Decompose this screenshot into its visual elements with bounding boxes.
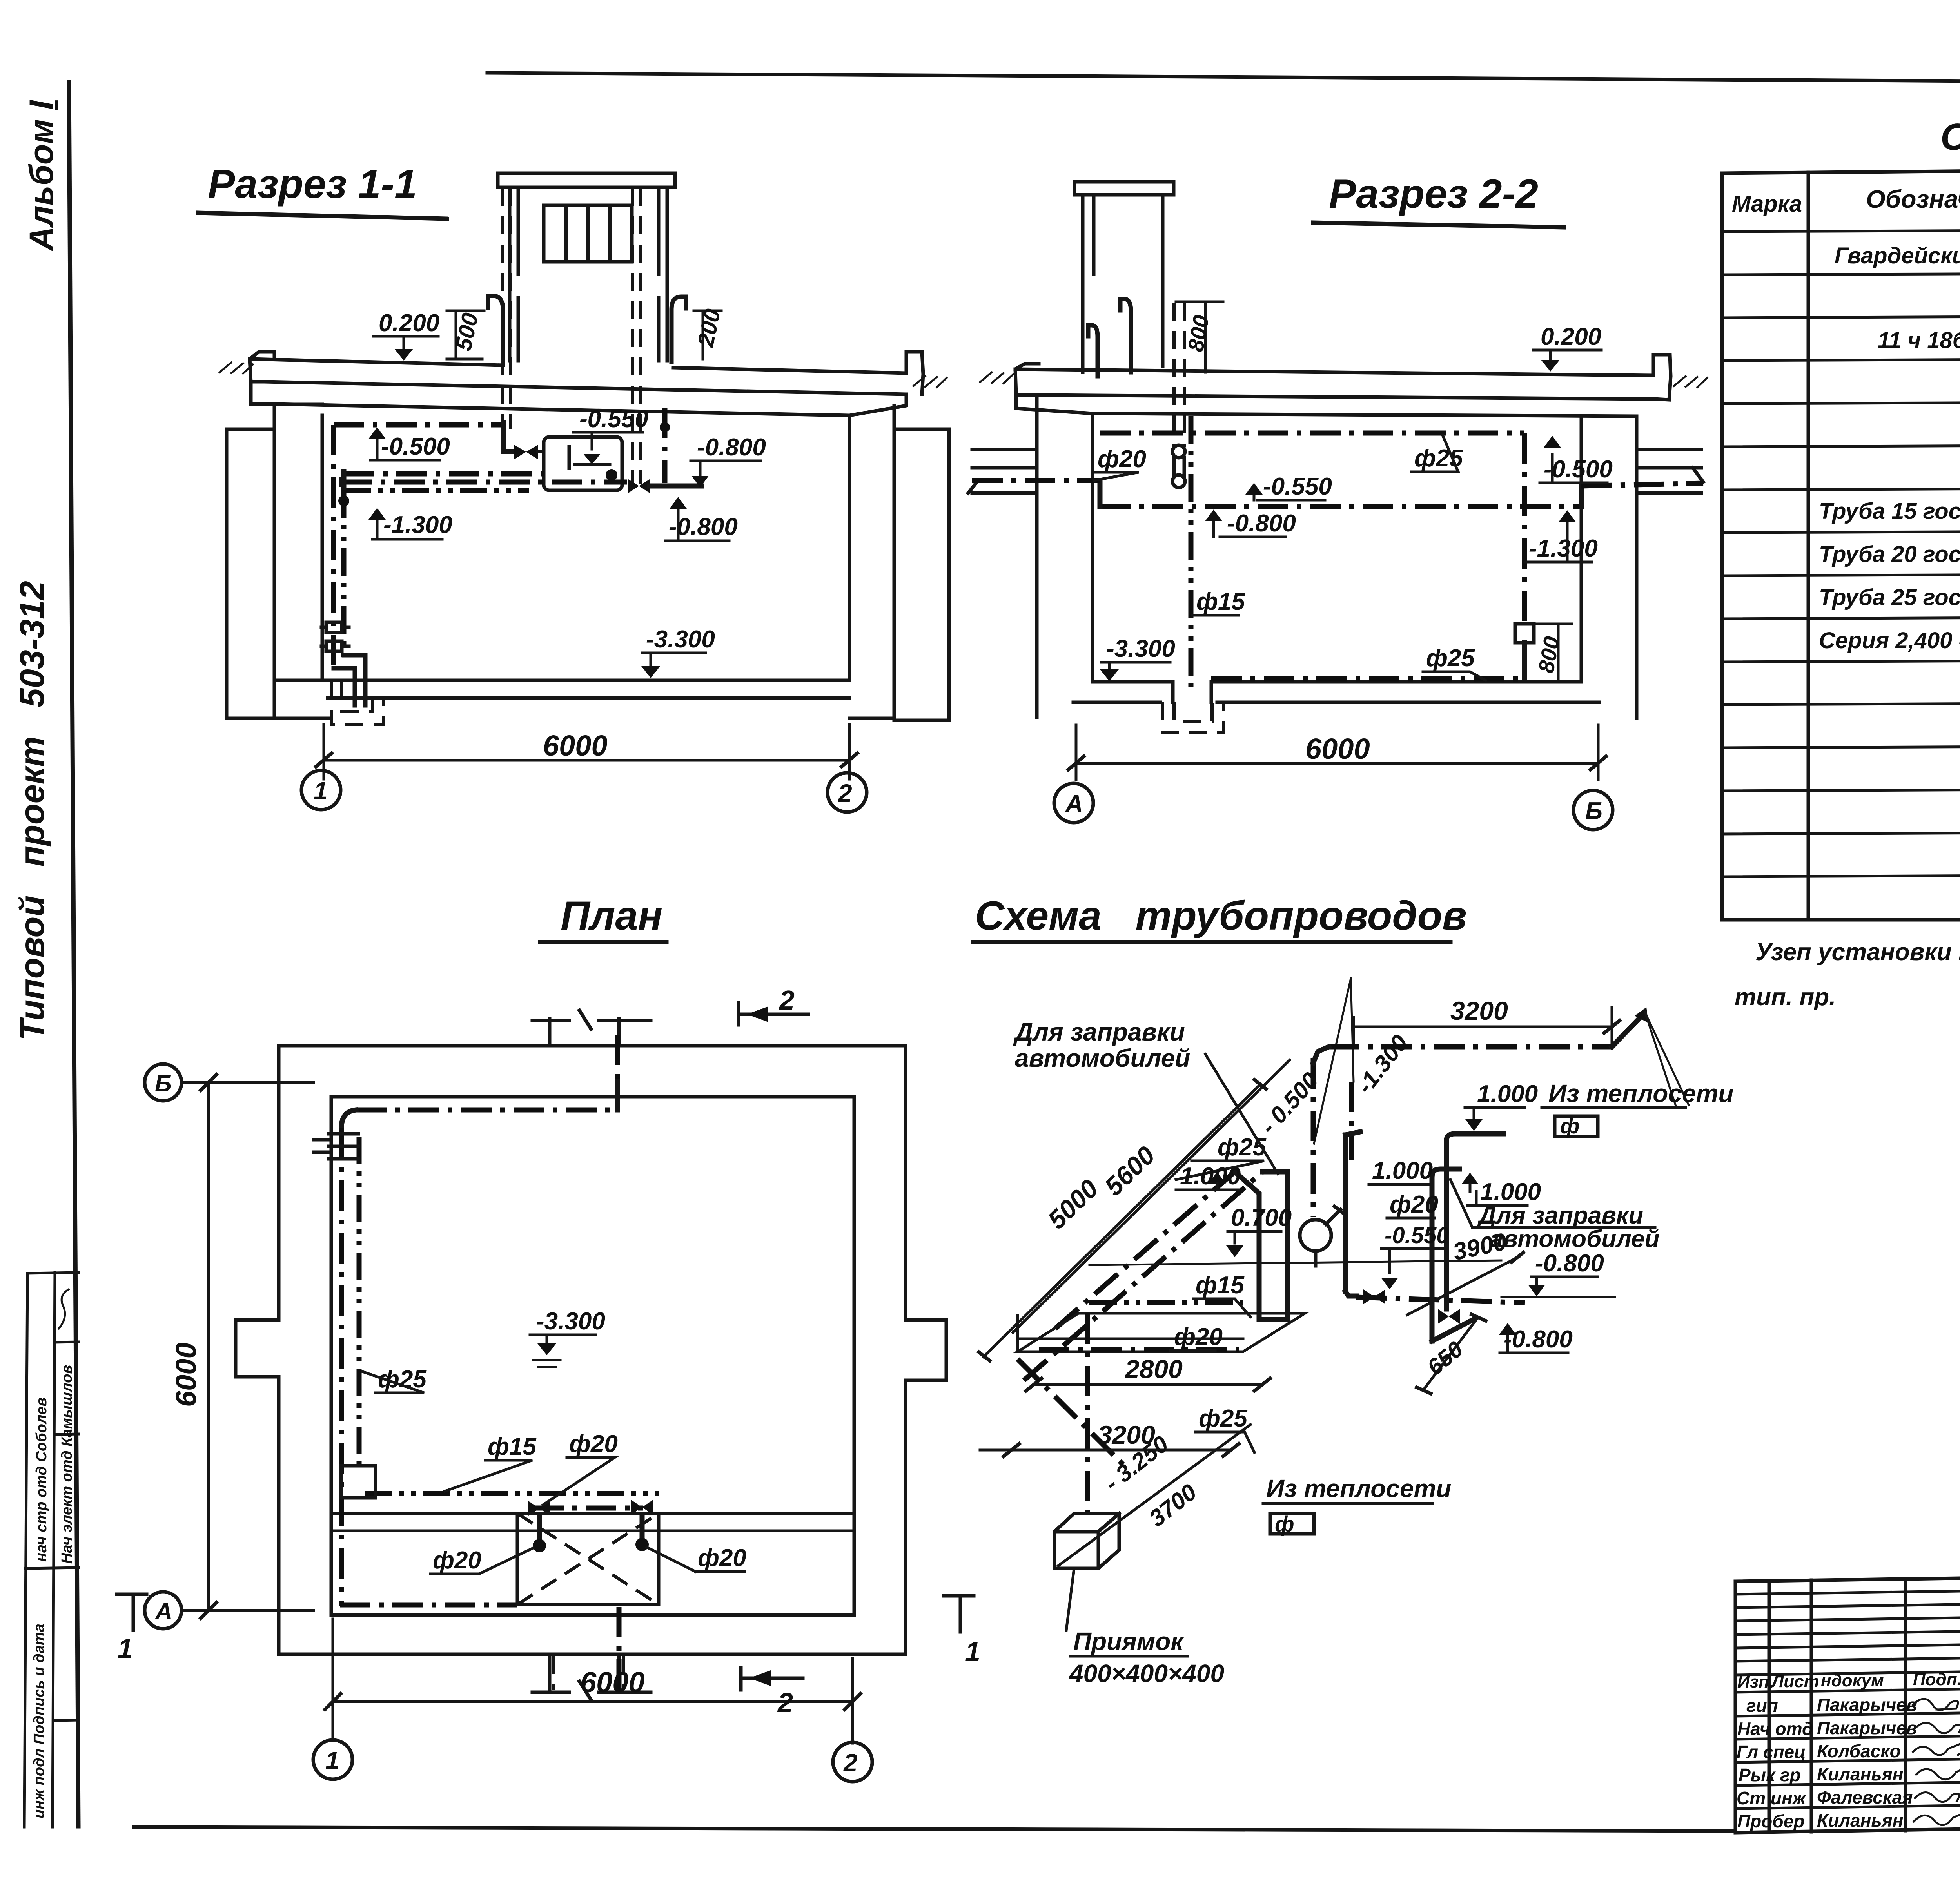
ground slab mid	[263, 382, 906, 394]
svg-text:0.700: 0.700	[1231, 1204, 1292, 1231]
svg-text:Приямок: Приямок	[1073, 1627, 1185, 1655]
svg-text:Разрез 2-2: Разрез 2-2	[1329, 171, 1538, 217]
svg-text:1: 1	[965, 1636, 980, 1667]
title block	[1735, 1571, 1960, 1833]
section 2-2 drawing	[968, 171, 1707, 830]
plan drawing	[117, 893, 980, 1782]
pipe diagonal B f25	[1055, 1172, 1235, 1329]
drop left with dot	[537, 1516, 542, 1542]
svg-text:6000: 6000	[170, 1342, 202, 1407]
wall channel lines	[331, 1514, 854, 1531]
soil block left	[227, 429, 274, 718]
axis circle A	[1054, 783, 1093, 823]
svg-text:1: 1	[314, 777, 328, 805]
svg-text:ф25: ф25	[1199, 1405, 1248, 1432]
valve left	[514, 445, 538, 459]
riser dash-dot right of pump	[662, 408, 668, 483]
sidebar signature squiggle	[59, 1289, 69, 1329]
pipe f20 right exit	[1579, 486, 1584, 507]
valve on mid horizontal	[1363, 1289, 1385, 1304]
svg-text:6000: 6000	[580, 1666, 645, 1699]
thin reference line mid	[1089, 1260, 1501, 1265]
svg-text:-0.800: -0.800	[1504, 1326, 1573, 1353]
svg-text:-3.300: -3.300	[1106, 635, 1175, 662]
svg-text:Лист: Лист	[1771, 1672, 1819, 1691]
left bump	[236, 1320, 279, 1377]
pipe f25 drop right	[1522, 433, 1527, 624]
svg-text:6000: 6000	[1305, 732, 1370, 765]
pipe U-bend bottom	[1259, 1317, 1288, 1322]
chamber floor	[274, 680, 894, 718]
svg-text:Узеп установки трехходового: Узеп установки трехходового крана см. ал…	[1755, 939, 1960, 966]
svg-text:Изп.: Изп.	[1737, 1672, 1774, 1691]
svg-text:ндокум: ндокум	[1821, 1671, 1884, 1690]
soil block right	[894, 429, 949, 720]
svg-text:-3.300: -3.300	[536, 1308, 605, 1335]
svg-text:ф20: ф20	[1174, 1323, 1223, 1351]
valve on mid run left	[528, 1501, 550, 1516]
svg-text:Ст инж: Ст инж	[1737, 1788, 1807, 1808]
svg-text:автомобилей: автомобилей	[1015, 1044, 1190, 1072]
left unions	[326, 622, 342, 633]
right wall	[849, 406, 894, 718]
dim diagonal -3.250 / 3700	[1058, 1425, 1250, 1566]
section mark 1 right	[944, 1596, 974, 1632]
dim diagonal 5600	[1013, 1060, 1290, 1332]
svg-text:Труба 25 гост 3262 - 75: Труба 25 гост 3262 - 75	[1819, 585, 1960, 610]
svg-text:гип: гип	[1746, 1695, 1778, 1716]
dim 500 vertical	[447, 311, 484, 359]
left wall	[1037, 395, 1093, 717]
svg-text:Для заправки: Для заправки	[1477, 1202, 1643, 1229]
inner wall rect	[331, 1097, 854, 1615]
pipe B elbow to short vertical	[1235, 1172, 1259, 1320]
left riser pipes dash-dot	[331, 425, 336, 670]
axis circle 1	[301, 770, 341, 810]
right assembly top horizontal	[1455, 1131, 1504, 1137]
dim 2800	[1034, 1383, 1262, 1386]
axis circle A plan	[145, 1592, 181, 1629]
pipe loop bottom run	[340, 1603, 517, 1608]
svg-text:Альбом I: Альбом I	[23, 100, 60, 252]
section mark 2 top	[739, 1002, 808, 1025]
svg-text:2800: 2800	[1124, 1354, 1183, 1383]
heater box diagonals dashed	[517, 1514, 659, 1604]
svg-text:ф20: ф20	[569, 1430, 618, 1457]
pump unit box	[544, 437, 622, 490]
chimney body	[1083, 195, 1163, 372]
svg-text:1: 1	[118, 1633, 133, 1664]
svg-text:1.000: 1.000	[1372, 1157, 1433, 1184]
bundle elbows left	[341, 471, 344, 493]
svg-text:Серия 2,400 - 4 вып.1: Серия 2,400 - 4 вып.1	[1819, 628, 1960, 653]
section mark 2 bottom	[741, 1668, 803, 1690]
svg-text:2: 2	[779, 985, 795, 1015]
svg-text:-1.300: -1.300	[383, 511, 452, 538]
gauge stem below	[1314, 1251, 1318, 1266]
svg-text:Труба 20 гост 3262 - 75: Труба 20 гост 3262 - 75	[1819, 542, 1960, 567]
svg-text:Рык гр: Рык гр	[1739, 1765, 1801, 1785]
ground hatch left	[980, 372, 1013, 383]
right bump	[906, 1320, 946, 1380]
svg-text:ф15: ф15	[1196, 588, 1245, 615]
section mark 1 left	[117, 1594, 147, 1630]
svg-text:тип. пр.: тип. пр.	[1735, 984, 1836, 1011]
svg-text:-0.500: -0.500	[381, 433, 450, 460]
svg-text:Из теплосети: Из теплосети	[1266, 1474, 1451, 1503]
pit dashed	[331, 682, 383, 724]
ground slab top	[250, 359, 906, 373]
kiosk cap	[498, 173, 675, 187]
dim diagonal 5000	[984, 1085, 1260, 1357]
svg-text:Марка: Марка	[1732, 191, 1802, 217]
dim 800 chimney	[1176, 302, 1223, 372]
valve right	[628, 479, 650, 493]
right assembly vertical V1	[1446, 1134, 1455, 1140]
svg-text:Нач отд: Нач отд	[1737, 1719, 1813, 1739]
pipe mid horizontal to right	[1356, 1297, 1525, 1303]
svg-text:-3.300: -3.300	[646, 626, 715, 653]
svg-text:Схема трубопроводов: Схема трубопроводов	[975, 893, 1467, 939]
pipe valve run f20	[533, 1506, 643, 1511]
svg-text:1.000: 1.000	[1180, 1163, 1241, 1190]
bottom stub dashed risers	[554, 1656, 623, 1690]
svg-text:Б: Б	[1585, 798, 1602, 825]
kiosk window	[544, 205, 632, 262]
chimney cap	[1074, 182, 1174, 195]
dim 3200 lower	[980, 1449, 1231, 1452]
dim 800 bottom right	[1534, 624, 1572, 682]
pipe diagonal A f25	[1024, 1172, 1263, 1380]
svg-text:2: 2	[843, 1749, 858, 1777]
svg-text:Спецификация: Спецификация	[1940, 116, 1960, 158]
svg-text:ф: ф	[1560, 1113, 1580, 1138]
svg-text:ф20: ф20	[433, 1547, 481, 1574]
svg-text:ф20: ф20	[1390, 1191, 1438, 1218]
ground slab top	[1015, 369, 1653, 375]
riser dashed pair right of chimney	[1174, 303, 1184, 447]
svg-text:Из теплосети: Из теплосети	[1548, 1079, 1733, 1108]
svg-text:А: А	[1065, 790, 1083, 818]
pipe ceiling run dash-dot	[334, 422, 503, 428]
outer wall rect	[279, 1046, 906, 1654]
axis circle B plan	[145, 1064, 181, 1101]
dim 3900 diagonal	[1407, 1256, 1519, 1315]
pipe drops to pit	[334, 655, 365, 705]
dim 6000 bottom	[324, 724, 849, 779]
svg-text:-0.800: -0.800	[1535, 1250, 1604, 1277]
right assembly vertical V2	[1430, 1176, 1435, 1341]
svg-text:Гл спец: Гл спец	[1737, 1742, 1806, 1762]
right assembly foot diagonal	[1432, 1319, 1474, 1341]
beam diag tick right	[1693, 468, 1703, 482]
ground hatch right	[1674, 376, 1707, 387]
gauge circle	[1300, 1220, 1331, 1251]
axis circle B	[1573, 790, 1613, 830]
pipe drop to valve	[503, 422, 514, 451]
right wall	[1581, 416, 1637, 718]
svg-text:Гвардейский завод: Гвардейский завод	[1835, 243, 1960, 268]
pipe f20 long run	[1100, 504, 1581, 509]
pipe mid bottom elbow	[1345, 1291, 1356, 1296]
svg-text:Пакарычев: Пакарычев	[1817, 1718, 1917, 1738]
frame top line	[487, 73, 1960, 83]
slab left end cap	[250, 352, 322, 404]
svg-text:Для заправки: Для заправки	[1013, 1018, 1185, 1046]
right beams outside	[1637, 450, 1701, 493]
hook pipe left	[488, 296, 503, 362]
svg-text:-0.550: -0.550	[1263, 473, 1332, 500]
riser dashed pair left	[502, 188, 511, 429]
bottom duct stub	[532, 1654, 651, 1692]
svg-text:-0.500: -0.500	[1544, 456, 1613, 483]
chamber ceiling line	[254, 404, 849, 415]
svg-text:ф20: ф20	[1098, 446, 1146, 473]
svg-text:ф15: ф15	[1196, 1272, 1245, 1299]
pipe f15 vertical	[1189, 416, 1194, 692]
chamber floor	[1073, 682, 1599, 702]
signatures squiggles	[1913, 1699, 1960, 1825]
svg-text:нач стр отд Соболев: нач стр отд Соболев	[33, 1398, 50, 1562]
piping scheme axonometric	[973, 893, 1733, 1688]
pipe f25 ceiling run	[1100, 431, 1524, 436]
pipe vertical mid thick	[1343, 1135, 1348, 1291]
pipe f20 through left wall	[972, 478, 1100, 483]
svg-text:ф20: ф20	[698, 1545, 746, 1572]
pipe drop to pit dash-dot	[1085, 1313, 1090, 1521]
svg-text:Труба 15 гост 3262 -75: Труба 15 гост 3262 -75	[1819, 499, 1960, 524]
flange bars top-left	[314, 1134, 358, 1159]
svg-text:2: 2	[777, 1687, 793, 1718]
pipe mid run f15	[365, 1491, 659, 1496]
dim 3200 top	[1354, 1007, 1612, 1044]
slab right end cap	[849, 352, 923, 415]
svg-text:-1.300: -1.300	[1529, 535, 1598, 562]
riser dashed pair right	[632, 188, 641, 484]
top duct stub	[532, 1019, 651, 1046]
dim 650 diagonal	[1423, 1318, 1478, 1390]
pipe loop top run	[356, 1108, 617, 1113]
chimney inner pipe lines	[1092, 195, 1096, 274]
frame bottom line	[134, 1827, 1735, 1831]
drop right with dot	[640, 1515, 645, 1541]
svg-text:2: 2	[838, 779, 852, 807]
svg-text:0.200: 0.200	[379, 310, 439, 337]
riser dash verticals to top run	[1313, 1058, 1352, 1217]
axis circle 1 plan	[313, 1740, 352, 1779]
svg-text:ф25: ф25	[1426, 645, 1475, 672]
svg-text:инж подл Подпись и дата: инж подл Подпись и дата	[31, 1624, 47, 1818]
pipe f20 elbow left	[1098, 480, 1103, 507]
floor notch for pipe	[1173, 682, 1211, 702]
axis circle 2	[828, 773, 867, 812]
svg-text:0.200: 0.200	[1541, 323, 1601, 350]
svg-text:Колбаско: Колбаско	[1817, 1741, 1901, 1761]
svg-text:Б: Б	[155, 1070, 171, 1097]
pit leader	[1066, 1568, 1074, 1630]
frame left line	[69, 82, 78, 1826]
fitting box on drop	[1515, 624, 1534, 643]
dim 6000 vertical	[181, 1082, 314, 1610]
left wall	[274, 404, 322, 718]
hook pipe small	[1088, 325, 1098, 376]
pipe top left elbow from risers	[1313, 1047, 1329, 1063]
slab left cap	[1015, 364, 1093, 413]
svg-text:Обозначение: Обозначение	[1866, 185, 1960, 213]
svg-text:Фалевская: Фалевская	[1817, 1787, 1913, 1807]
section 1-1 drawing	[198, 161, 949, 812]
svg-text:400×400×400: 400×400×400	[1069, 1659, 1224, 1688]
svg-text:1.000: 1.000	[1480, 1178, 1541, 1206]
pipe top horizontal run	[1329, 1044, 1612, 1050]
svg-text:А: А	[154, 1598, 172, 1624]
pipe riser through bottom wall	[617, 1607, 622, 1691]
svg-text:План: План	[561, 893, 662, 939]
union box left	[341, 1466, 376, 1498]
pipe bundle runs	[344, 471, 544, 477]
svg-text:Разрез 1-1: Разрез 1-1	[208, 161, 417, 207]
svg-text:ф15: ф15	[488, 1433, 537, 1460]
svg-text:Киланьян: Киланьян	[1817, 1810, 1904, 1831]
pipe f20 run lower	[1039, 1347, 1239, 1352]
hook pipe right	[671, 297, 686, 362]
axis circle 2 plan	[833, 1742, 872, 1782]
cut plane wedge	[1314, 978, 1354, 1144]
pipe U-bend right vertical	[1285, 1172, 1290, 1320]
bottom stub diag tick	[579, 1681, 591, 1700]
pipe diagonal into pit area	[1018, 1359, 1125, 1467]
kiosk body	[510, 187, 667, 361]
pipe riser through top wall	[615, 1035, 620, 1082]
svg-text:Пробер: Пробер	[1737, 1811, 1804, 1831]
leader wedge to Iz teploseti right	[1645, 1012, 1689, 1106]
svg-text:Подп.: Подп.	[1913, 1670, 1960, 1689]
svg-text:Нач элект отд Камышлов: Нач элект отд Камышлов	[59, 1365, 75, 1564]
valve near right vertical	[1438, 1309, 1460, 1324]
svg-text:11 ч 18бк: 11 ч 18бк	[1878, 328, 1960, 353]
ground hatch right	[913, 376, 947, 387]
slab parallelogram	[1018, 1313, 1305, 1352]
specification table	[1722, 116, 1960, 1011]
ground hatch left	[220, 363, 253, 373]
beam diag tick left	[968, 482, 977, 493]
svg-text:ф25: ф25	[1218, 1134, 1267, 1161]
dim 6000 horizontal	[333, 1619, 853, 1743]
hook pipe tall	[1120, 299, 1131, 372]
svg-text:6000: 6000	[543, 729, 608, 762]
pipe loop left run outer	[341, 1110, 356, 1128]
pit box (Priyamok)	[1054, 1514, 1119, 1568]
svg-text:3200: 3200	[1450, 996, 1508, 1025]
pump internals	[568, 447, 571, 468]
dim 6000	[1076, 725, 1598, 780]
ground slab mid	[1037, 395, 1653, 399]
pit dashed below	[1162, 702, 1224, 732]
svg-text:-0.800: -0.800	[1227, 510, 1296, 537]
spec table grid	[1722, 166, 1960, 920]
pipe loop left run outer2	[339, 1128, 344, 1606]
heater box	[517, 1514, 659, 1604]
fittings on risers	[1172, 445, 1185, 458]
svg-text:Пакарычев: Пакарычев	[1817, 1695, 1917, 1715]
pipe loop left run inner	[357, 1137, 362, 1468]
pipe right of valve	[650, 484, 702, 489]
slab right cap	[1653, 355, 1671, 400]
sidebar bottom table	[24, 1273, 78, 1827]
left beams outside	[972, 450, 1037, 493]
thin reference line right step	[1501, 1296, 1615, 1298]
dim 200 vertical right	[694, 311, 721, 359]
svg-text:автомобилей: автомобилей	[1490, 1225, 1659, 1253]
pipe floor run f25	[1211, 676, 1524, 682]
svg-text:-0.800: -0.800	[697, 434, 766, 461]
ceiling inner line	[1093, 413, 1637, 416]
pipe right riser diagonal	[1612, 1014, 1643, 1047]
svg-text:1: 1	[325, 1746, 339, 1775]
svg-text:Киланьян: Киланьян	[1817, 1764, 1904, 1784]
valve on mid run right	[631, 1500, 653, 1515]
svg-text:-0.550: -0.550	[579, 406, 648, 433]
svg-text:1.000: 1.000	[1477, 1080, 1538, 1108]
top stub diag tick	[579, 1010, 591, 1029]
svg-text:ф: ф	[1275, 1512, 1294, 1536]
svg-text:Типовой проект 503-312: Типовой проект 503-312	[13, 581, 51, 1041]
pipe A elbow top	[1263, 1169, 1288, 1175]
pipe f15 run dash-dot-dot	[1089, 1300, 1243, 1305]
svg-text:-0.550: -0.550	[1385, 1223, 1449, 1248]
title block grid	[1735, 1571, 1960, 1833]
